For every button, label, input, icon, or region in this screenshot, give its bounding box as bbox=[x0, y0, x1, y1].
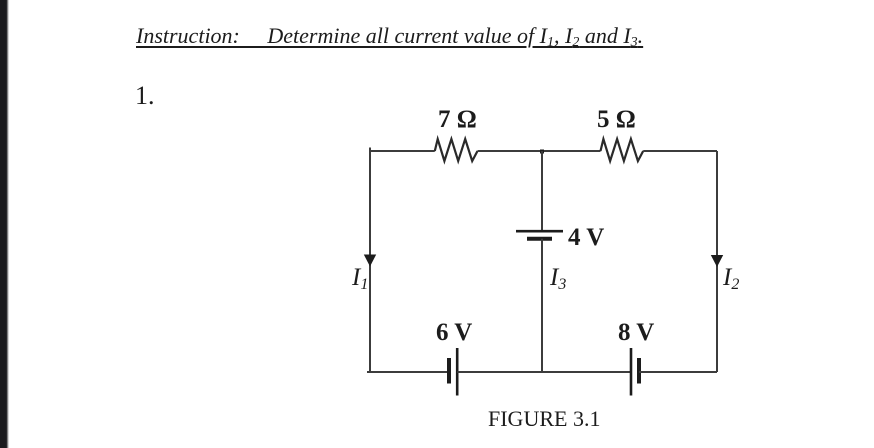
list number 1. bbox=[135, 81, 155, 111]
current label I3 bbox=[550, 264, 566, 292]
battery B3 4V short plate bbox=[527, 237, 552, 241]
battery B2 8V long plate bbox=[630, 348, 633, 396]
value label 8 V bbox=[618, 319, 654, 347]
current label I1 bbox=[352, 264, 368, 292]
wire top-middle segment bbox=[478, 150, 601, 152]
wire middle branch lower segment bbox=[541, 239, 543, 372]
current arrow I1 bbox=[364, 255, 376, 267]
junction dot top-middle node bbox=[540, 150, 544, 154]
value label 6 V bbox=[436, 319, 472, 347]
resistor R2 5 ohm bbox=[601, 139, 644, 161]
battery B1 6V long plate bbox=[456, 348, 459, 396]
wire middle branch upper segment bbox=[541, 151, 543, 231]
wire stub at top-left corner bbox=[369, 148, 371, 152]
wire top-right segment bbox=[643, 150, 717, 152]
wire bottom-right segment bbox=[639, 371, 717, 373]
battery B1 6V short plate bbox=[447, 358, 451, 384]
wire stub at bottom-left corner bbox=[367, 371, 370, 373]
current arrow I2 bbox=[711, 255, 723, 267]
value label 4 V bbox=[568, 224, 604, 252]
wire bottom-middle segment bbox=[457, 371, 631, 373]
resistor R1 7 ohm bbox=[435, 139, 478, 161]
battery B3 4V long plate bbox=[516, 230, 563, 233]
current label I2 bbox=[723, 264, 739, 292]
scan edge black bar bbox=[0, 0, 9, 448]
wire bottom-left segment bbox=[370, 371, 449, 373]
value label 5 ohm bbox=[597, 106, 636, 134]
wire top-left segment bbox=[370, 150, 435, 152]
wire right branch vertical bbox=[716, 151, 718, 372]
heading text bbox=[136, 23, 643, 49]
caption FIGURE 3.1 bbox=[488, 406, 600, 432]
value label 7 ohm bbox=[438, 106, 477, 134]
battery B2 8V short plate bbox=[637, 358, 641, 384]
wire left branch vertical bbox=[369, 151, 371, 372]
